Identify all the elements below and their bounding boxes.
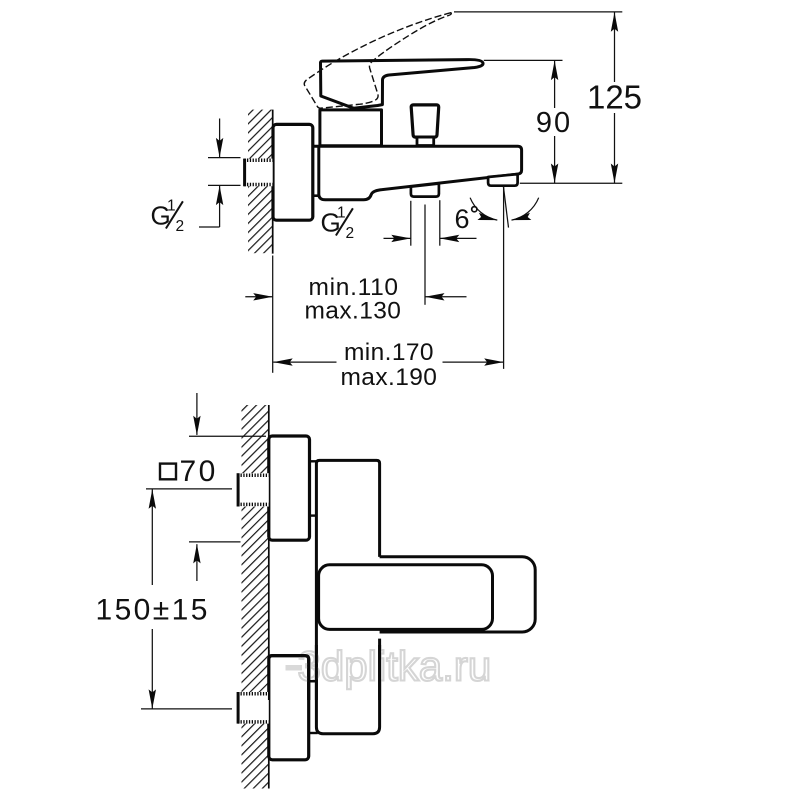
wall escutcheon (side view) [273, 124, 313, 220]
extension line escutcheon top [189, 435, 266, 437]
arrow min110 right [425, 293, 445, 300]
spout tip centerline extension [503, 187, 505, 369]
min170 dimension line [273, 361, 336, 363]
svg-text:1: 1 [337, 205, 346, 222]
solid lever handle [321, 60, 484, 109]
square70 dimension lines [196, 393, 198, 435]
arrow G1/2 nipple bottom [216, 186, 223, 206]
svg-text:125: 125 [587, 79, 642, 116]
lower threaded nipple (front view) [238, 692, 269, 724]
arrow square70 top [193, 416, 200, 436]
wall face extension line down [272, 256, 274, 373]
svg-text:2: 2 [176, 218, 185, 235]
label G1/2 left [151, 198, 185, 236]
label square 70 [160, 464, 176, 480]
arrow min170 right [484, 358, 504, 365]
dimension line 150 [151, 489, 153, 585]
shower hose outlet (under body) [411, 184, 439, 197]
handle front face (inner rounded rect) [319, 565, 493, 630]
upper link body-escutcheon [310, 460, 317, 462]
arrow swivel arc right [511, 213, 532, 224]
phantom raised handle (dashed) [304, 13, 451, 108]
extension line escutcheon bottom [189, 541, 241, 543]
extension line top (125) [454, 11, 622, 13]
wall face line (side view) [272, 110, 274, 254]
G1/2 wall dimension lines [219, 119, 221, 158]
svg-text:3dplitka.ru: 3dplitka.ru [298, 643, 492, 690]
threaded wall nipple (side view) [244, 159, 273, 187]
wall hatch (front view) [242, 405, 269, 789]
lower link body-escutcheon [309, 680, 318, 682]
arrow min170 left [273, 358, 293, 365]
svg-text:2: 2 [346, 225, 355, 242]
extension line handle tip (90) [484, 59, 563, 61]
svg-text:150±15: 150±15 [96, 594, 210, 627]
handle base block [320, 110, 382, 146]
svg-text:70: 70 [180, 455, 218, 488]
handle outer outline (front view) [330, 557, 535, 632]
arrow G1/2 nipple top [216, 138, 223, 158]
dimension line 90 [554, 60, 556, 108]
label G1/2 under body [321, 205, 355, 243]
arrow 125-dim bottom [611, 164, 618, 184]
arrow swivel arc left [477, 213, 498, 224]
extension line lower nipple center [141, 708, 232, 710]
upper escutcheon (front view) [269, 436, 310, 540]
arrow square70 bottom [193, 544, 200, 564]
wall hatch (side view) [248, 110, 273, 254]
lower escutcheon (front view) [269, 656, 309, 760]
watermark [286, 643, 492, 690]
swivel arc left [470, 198, 497, 220]
redraw lines over watermark [269, 645, 380, 700]
extension line upper nipple center [146, 488, 232, 490]
faucet body with spout (side view) [313, 146, 522, 200]
tilted 6deg centerline [503, 186, 508, 227]
svg-text:1: 1 [167, 198, 176, 215]
arrow 150-dim bottom [149, 689, 156, 709]
arrow 90-dim bottom [551, 164, 558, 184]
svg-text:90: 90 [536, 107, 572, 139]
svg-text:6: 6 [455, 204, 470, 234]
arrow 90-dim top [551, 61, 558, 81]
faucet body (front view) [316, 460, 379, 733]
extension line spout bottom [520, 182, 623, 184]
min110 dimension line [245, 296, 272, 298]
upper threaded nipple (front view) [238, 473, 269, 506]
arrow min110 left [253, 293, 273, 300]
dimension line 125 [614, 12, 616, 82]
svg-text:max.190: max.190 [341, 364, 438, 391]
svg-text:min.170: min.170 [344, 339, 434, 366]
spout aerator tip [488, 174, 517, 186]
diverter knob neck [417, 137, 434, 145]
svg-text:max.130: max.130 [305, 297, 402, 324]
connector bottom line (body to escutcheon) [313, 194, 319, 197]
outlet G1/2 dimension [384, 237, 411, 239]
wall face line (front view) [268, 405, 270, 789]
swivel arc right [512, 198, 539, 220]
arrow outlet left [391, 235, 411, 242]
arrow 125-dim top [611, 12, 618, 32]
diverter knob [411, 105, 439, 137]
arrow outlet right [440, 235, 460, 242]
arrow 150-dim top [149, 489, 156, 509]
